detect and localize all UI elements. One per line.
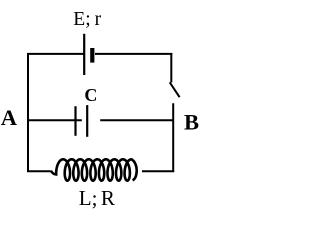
svg-text:C: C (84, 85, 97, 105)
svg-text:A: A (1, 105, 18, 130)
svg-text:L;: L; (79, 186, 98, 210)
svg-text:r: r (95, 9, 102, 30)
svg-text:R: R (101, 186, 115, 210)
svg-text:E;: E; (73, 9, 90, 30)
svg-text:B: B (184, 109, 199, 134)
